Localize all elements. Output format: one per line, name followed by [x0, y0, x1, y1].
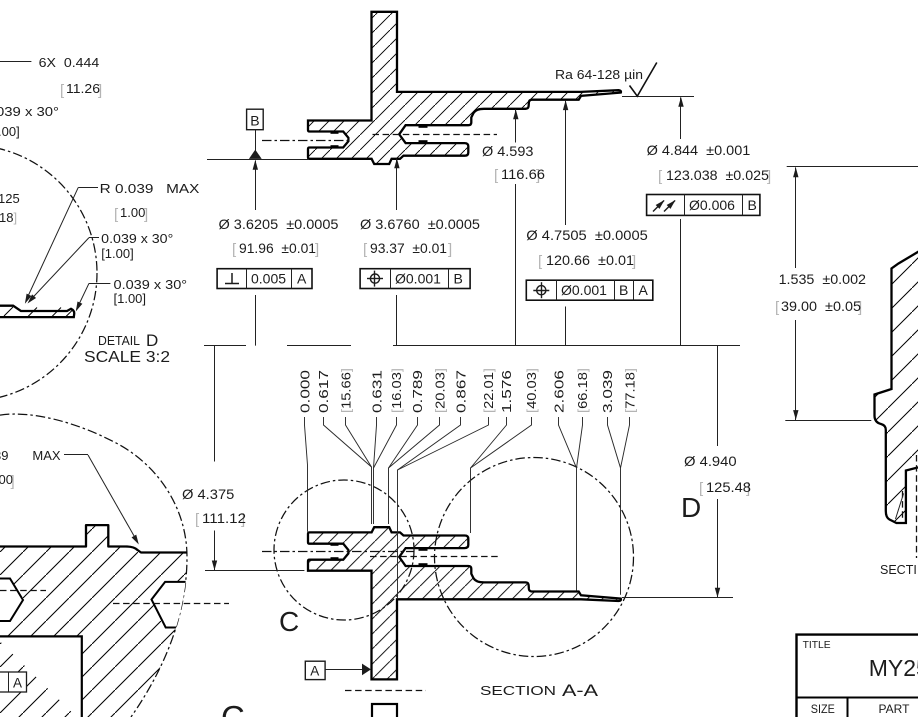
svg-text:DETAIL: DETAIL	[98, 334, 140, 348]
relief notches in grooves	[331, 127, 428, 147]
cropped view rectangle at bottom	[372, 704, 397, 717]
svg-text:18]: 18]	[0, 210, 17, 225]
svg-text:B: B	[250, 113, 259, 129]
svg-text:6X 0.444: 6X 0.444	[39, 55, 100, 70]
svg-text:Ø 4.7505 ±0.0005: Ø 4.7505 ±0.0005	[526, 227, 648, 243]
baseline phantom line	[204, 345, 740, 347]
feature control frame position B A	[526, 280, 653, 300]
svg-text:A: A	[297, 271, 307, 287]
hidden bore line right (top view)	[373, 134, 498, 136]
svg-text:91.96 ±0.01: 91.96 ±0.01	[239, 240, 316, 256]
label 0.039 x 30 first	[25, 231, 173, 305]
detail C material	[0, 525, 196, 717]
svg-text:0.617: 0.617	[316, 370, 331, 413]
centerline left groove (section A-A)	[262, 551, 414, 553]
extension line Ø3.6205 surface	[207, 159, 309, 161]
dimension Ø4.375	[182, 346, 304, 571]
svg-text:Ra 64-128 µin: Ra 64-128 µin	[555, 67, 643, 82]
hex socket left	[0, 579, 23, 622]
hidden bore lines right view	[902, 491, 904, 521]
svg-text:A-A: A-A	[562, 681, 599, 700]
svg-text:0.000: 0.000	[298, 370, 313, 413]
detail C boundary arc	[0, 414, 187, 717]
svg-text:Ø 4.593: Ø 4.593	[482, 143, 534, 159]
svg-text:C: C	[279, 606, 299, 637]
svg-text:Ø0.001: Ø0.001	[395, 271, 441, 287]
svg-text:A: A	[310, 664, 319, 679]
svg-text:Ø 3.6760 ±0.0005: Ø 3.6760 ±0.0005	[360, 216, 480, 232]
svg-text:39: 39	[0, 448, 8, 463]
svg-text:Ø0.006: Ø0.006	[689, 197, 735, 213]
svg-text:.00]: .00]	[0, 124, 20, 139]
svg-text:039 x 30°: 039 x 30°	[0, 104, 59, 119]
datum B flag	[247, 109, 264, 159]
svg-text:120.66 ±0.01: 120.66 ±0.01	[546, 252, 634, 268]
section A-A part body (mirrored)	[308, 527, 621, 679]
svg-text:R 0.039 MAX: R 0.039 MAX	[100, 181, 200, 196]
svg-text:[40.03]: [40.03]	[524, 368, 539, 413]
svg-text:0.631: 0.631	[370, 370, 385, 413]
label MAX (cropped)	[0, 448, 141, 546]
svg-text:Ø 4.375: Ø 4.375	[182, 486, 235, 502]
feature control frame position B	[360, 269, 470, 289]
svg-text:0.005: 0.005	[251, 271, 286, 287]
svg-text:0.867: 0.867	[453, 370, 468, 413]
svg-text:93.37 ±0.01: 93.37 ±0.01	[370, 240, 447, 256]
svg-text:C: C	[221, 699, 245, 717]
dimension Ø4.593	[482, 109, 545, 345]
svg-text:123.038 ±0.025: 123.038 ±0.025	[666, 167, 769, 183]
svg-text:1.535 ±0.002: 1.535 ±0.002	[779, 271, 867, 287]
svg-text:125.48: 125.48	[706, 479, 751, 495]
svg-text:125: 125	[0, 191, 20, 206]
svg-text:3.039: 3.039	[600, 370, 615, 413]
dimension Ø3.6760	[360, 158, 480, 345]
svg-text:1.00: 1.00	[120, 205, 145, 220]
dimension Ø4.940	[622, 346, 751, 598]
centerline stub below section A-A	[345, 690, 426, 692]
svg-text:[1.00]: [1.00]	[101, 246, 134, 261]
svg-text:[1.00]: [1.00]	[114, 291, 147, 306]
feature control frame perpendicularity	[217, 269, 312, 289]
svg-text:11.26: 11.26	[66, 81, 100, 96]
svg-text:Ø 4.940: Ø 4.940	[684, 453, 737, 469]
svg-text:111.12: 111.12	[202, 510, 246, 526]
svg-text:B: B	[454, 271, 463, 287]
leader 6X 0.444	[0, 61, 31, 63]
svg-text:[15.66]: [15.66]	[338, 368, 353, 413]
svg-text:Ø 4.844 ±0.001: Ø 4.844 ±0.001	[647, 142, 751, 158]
svg-text:D: D	[146, 331, 158, 350]
svg-text:A: A	[639, 282, 649, 298]
svg-text:116.66: 116.66	[501, 166, 545, 182]
svg-text:0.039 x 30°: 0.039 x 30°	[101, 231, 173, 246]
surface finish Ra	[555, 63, 657, 97]
dimension 1.535	[775, 167, 918, 421]
svg-text:MAX: MAX	[32, 448, 61, 463]
detail D lip profile	[0, 306, 74, 317]
svg-text:Ø 3.6205 ±0.0005: Ø 3.6205 ±0.0005	[219, 216, 339, 232]
hidden line stub left hex	[0, 590, 46, 592]
hex socket right	[152, 582, 193, 628]
svg-text:[16.03]: [16.03]	[389, 368, 404, 413]
detail circle D	[435, 458, 634, 657]
right view part body	[875, 251, 918, 523]
svg-text:[20.03]: [20.03]	[433, 368, 448, 413]
svg-text:]: ]	[448, 241, 452, 258]
feature control frame total runout	[647, 195, 760, 216]
datum A flag	[305, 661, 371, 679]
dimension Ø3.6205	[219, 160, 339, 346]
svg-text:[66.18]: [66.18]	[575, 368, 590, 413]
hidden bore line right (section A-A)	[370, 556, 498, 558]
svg-text:]: ]	[11, 473, 15, 490]
centerline left groove (top view)	[262, 140, 352, 142]
svg-text:39.00 ±0.05: 39.00 ±0.05	[781, 298, 861, 314]
label R0.039 MAX	[22, 181, 199, 305]
svg-text:SECTION: SECTION	[480, 684, 556, 698]
svg-text:1.576: 1.576	[499, 370, 514, 413]
svg-text:2.606: 2.606	[552, 370, 567, 413]
datum target white box	[0, 636, 82, 717]
svg-text:B: B	[619, 282, 628, 298]
label 0.039 x 30 second	[73, 277, 187, 313]
top view part body	[308, 12, 621, 164]
svg-text:[22.01]: [22.01]	[481, 368, 496, 413]
ordinate leader lines	[305, 417, 630, 599]
svg-text:A: A	[13, 676, 22, 691]
dashed centerline through hex	[113, 603, 229, 605]
svg-text:TITLE: TITLE	[803, 639, 831, 651]
svg-text:Ø0.001: Ø0.001	[561, 282, 607, 298]
svg-text:0.039 x 30°: 0.039 x 30°	[114, 277, 188, 292]
bore chamfer line right view	[896, 493, 904, 519]
dimension Ø4.7505	[526, 100, 648, 345]
datum A cell	[0, 672, 27, 692]
svg-text:SIZE: SIZE	[811, 702, 835, 716]
detail D boundary arc	[0, 145, 97, 401]
dimension Ø4.844	[622, 97, 771, 346]
svg-text:PART: PART	[879, 702, 913, 716]
svg-text:B: B	[748, 197, 757, 213]
svg-text:SECTI: SECTI	[880, 563, 917, 577]
svg-text:SCALE 3:2: SCALE 3:2	[84, 349, 170, 366]
svg-text:MY25: MY25	[869, 655, 918, 681]
relief notches in grooves (section A-A)	[331, 545, 428, 565]
svg-text:0.789: 0.789	[410, 370, 425, 413]
svg-text:[77.18]: [77.18]	[622, 368, 637, 413]
detail circle C	[274, 480, 414, 620]
